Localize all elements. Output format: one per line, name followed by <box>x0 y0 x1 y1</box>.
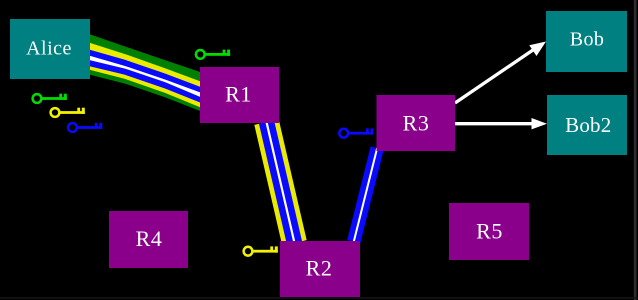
node Alice <box>10 19 90 79</box>
svg-text:R2: R2 <box>306 256 333 281</box>
svg-text:R1: R1 <box>225 82 252 107</box>
svg-text:R3: R3 <box>403 111 430 136</box>
link R3-R2 (cable blue/white) <box>354 148 377 242</box>
link R1-R2 (onion cable yellow/blue/white) <box>267 122 295 243</box>
key K6 yellow (left of R2) <box>244 246 278 255</box>
arrow R3-Bob <box>455 42 546 104</box>
svg-text:R4: R4 <box>136 226 163 251</box>
link Alice-R1 (onion cable green/yellow/blue/white) <box>88 34 201 112</box>
key K1 green (above R1) <box>196 50 230 59</box>
svg-text:Bob: Bob <box>570 29 605 51</box>
window border bottom <box>0 297 638 299</box>
svg-text:R5: R5 <box>476 218 503 243</box>
router R4 <box>109 211 188 268</box>
key K2 green (below Alice) <box>33 94 67 103</box>
node Bob2 <box>547 95 627 155</box>
key K4 blue <box>68 123 102 132</box>
key K5 blue (left of R3) <box>339 128 373 137</box>
svg-text:Alice: Alice <box>26 38 72 60</box>
window border right <box>634 0 637 300</box>
router R5 <box>449 203 529 260</box>
router R2 <box>280 241 360 297</box>
router R1 <box>200 67 279 123</box>
node Bob <box>546 11 627 72</box>
key K3 yellow <box>51 108 85 117</box>
router R3 <box>377 95 456 151</box>
svg-text:Bob2: Bob2 <box>565 113 611 137</box>
arrow R3-Bob2 <box>455 118 547 129</box>
